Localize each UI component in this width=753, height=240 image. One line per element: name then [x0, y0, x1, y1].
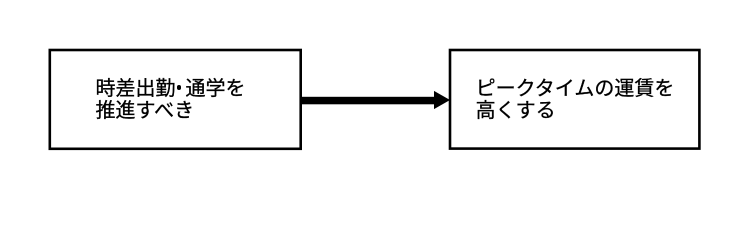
text right box: [476, 78, 675, 123]
box: 時差出勤・通学を推進すべき: [50, 50, 301, 149]
box: ピークタイムの運賃を高くする: [450, 50, 699, 149]
text left box: [96, 78, 246, 123]
arrow shaft: [301, 97, 437, 105]
arrowhead: [434, 91, 450, 109]
